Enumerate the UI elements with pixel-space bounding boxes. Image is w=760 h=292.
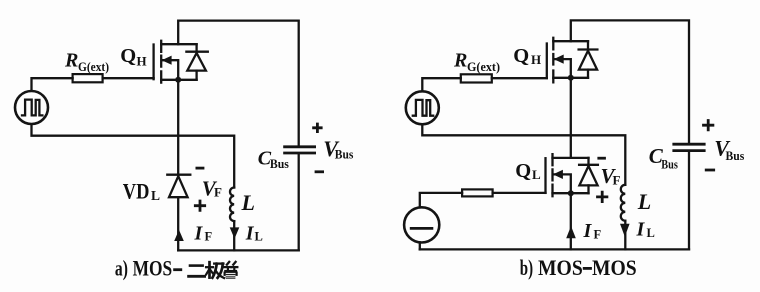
label minus (C_Bus) <box>315 170 324 173</box>
body diode of Q_H <box>186 44 207 80</box>
label minus (Q_L diode) <box>597 157 606 160</box>
wire: resistor to gate <box>103 77 154 79</box>
svg-text:L: L <box>255 230 263 244</box>
wire: switch node vertical down to VD_L <box>177 80 179 175</box>
svg-text:MOS: MOS <box>592 255 637 280</box>
diode VD_L <box>167 175 190 251</box>
svg-text:Bus: Bus <box>726 148 745 163</box>
svg-text:I: I <box>245 223 255 245</box>
arrow I_F <box>174 230 184 241</box>
svg-text:H: H <box>137 53 147 68</box>
wire: switch node vertical down to Q_L drain <box>570 78 572 158</box>
svg-text:VD: VD <box>123 178 150 203</box>
inductor L <box>230 188 234 251</box>
resistor (Q_L gate) <box>462 189 493 196</box>
transistor Q_H b (high-side MOSFET) <box>547 38 588 83</box>
caption a Chinese: 管 <box>224 262 237 279</box>
bottom rail a <box>178 249 299 251</box>
pulse source V2 <box>406 91 439 124</box>
svg-text:F: F <box>205 230 213 244</box>
svg-text:I: I <box>583 220 593 242</box>
svg-text:b): b) <box>520 255 533 280</box>
junction dot: Q_H source node <box>175 77 181 83</box>
svg-text:Q: Q <box>513 45 529 67</box>
svg-text:R: R <box>64 50 78 72</box>
svg-text:Q: Q <box>120 45 136 67</box>
svg-text:G(ext): G(ext) <box>467 60 500 74</box>
arrow I_L <box>230 227 240 238</box>
svg-text:F: F <box>594 228 602 242</box>
label plus (C_Bus b) <box>702 119 714 131</box>
bottom rail b <box>420 248 689 250</box>
svg-text:Bus: Bus <box>335 146 354 161</box>
svg-text:L: L <box>532 167 541 182</box>
DC gate source V3 <box>404 207 439 242</box>
wire: drain to top rail, top rail, down to capacitor <box>178 21 299 147</box>
pulse source V1 <box>15 91 48 124</box>
wire: Q_L source down to bottom rail <box>570 193 572 249</box>
svg-text:L: L <box>647 226 655 240</box>
caption a Chinese: 极 <box>206 262 224 278</box>
label plus (VD_L anode) <box>194 200 206 212</box>
svg-text:Bus: Bus <box>270 156 289 171</box>
wire: resistor to Q_L gate <box>493 192 546 194</box>
body diode of Q_L <box>579 158 598 193</box>
junction dot: Q_H b source node <box>568 75 574 81</box>
capacitor C_Bus b <box>672 144 705 249</box>
caption a Chinese: 二 <box>189 266 205 277</box>
capacitor C_Bus <box>283 147 316 251</box>
transistor Q_H (high-side MOSFET) <box>154 41 197 83</box>
svg-text:L: L <box>241 190 255 215</box>
svg-text:L: L <box>637 189 651 214</box>
svg-text:MOS: MOS <box>133 255 173 280</box>
wire: gate return from source bottom to inductor top <box>32 124 235 187</box>
wire: source top to gate resistor b <box>422 78 461 91</box>
arrow I_L b <box>620 224 630 237</box>
label minus (VD_L cathode) <box>196 167 205 170</box>
label minus (C_Bus b) <box>705 169 715 172</box>
label plus (Q_L diode) <box>596 191 608 203</box>
inductor L b <box>621 185 626 250</box>
svg-text:I: I <box>636 219 646 241</box>
svg-text:F: F <box>613 172 621 187</box>
svg-text:F: F <box>214 185 222 200</box>
wire: DC source top to Q_L gate resistor <box>420 193 462 208</box>
svg-text:L: L <box>151 188 160 203</box>
wire: pulse source b return to inductor top <box>422 125 625 185</box>
junction dot: Q_L source node <box>568 190 574 196</box>
wire: DC source bottom to rail <box>419 242 421 249</box>
wire: drain b to top rail, down to capacitor b <box>571 20 689 142</box>
svg-text:a): a) <box>115 255 128 280</box>
svg-text:Bus: Bus <box>661 157 678 172</box>
transistor Q_L (low-side MOSFET) <box>546 154 589 196</box>
body diode of Q_H b <box>579 41 598 78</box>
svg-text:I: I <box>194 223 204 245</box>
svg-text:H: H <box>531 52 541 67</box>
svg-text:G(ext): G(ext) <box>78 60 109 74</box>
svg-text:MOS: MOS <box>538 255 583 280</box>
svg-text:R: R <box>453 50 467 72</box>
wire: resistor to gate b <box>492 77 547 79</box>
svg-text:Q: Q <box>515 160 531 182</box>
resistor R_G(ext) b <box>461 74 492 82</box>
label plus (C_Bus) <box>312 123 322 133</box>
wire: source top to gate resistor <box>32 78 73 91</box>
resistor R_G(ext) <box>73 74 103 82</box>
arrow I_F b <box>566 226 576 238</box>
